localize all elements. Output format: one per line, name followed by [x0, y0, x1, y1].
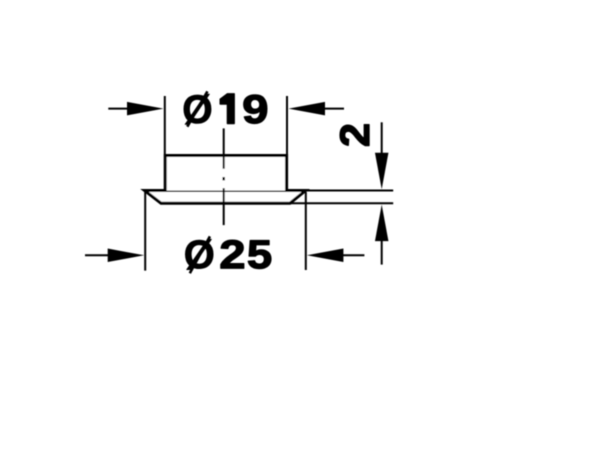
- arrow Ø25 left: [108, 249, 145, 262]
- label Ø25: digit 2: [221, 240, 244, 268]
- dimension line 2 lower: [381, 241, 383, 265]
- dimension line Ø19 right: [322, 108, 344, 110]
- arrow 2 lower (up): [375, 205, 389, 242]
- flange (cross-section of Ø25 trim ring): [145, 191, 306, 204]
- dimension line Ø25 left: [85, 254, 110, 256]
- label Ø25: Ø slash overlay: [190, 236, 210, 273]
- label 2 (rotated 90° CCW): [340, 125, 369, 146]
- arrow 2 upper (down): [375, 153, 389, 190]
- extension line Ø25 left: [144, 192, 146, 271]
- dimension line 2 upper: [381, 122, 383, 155]
- label Ø19: Ø slash overlay: [187, 91, 207, 126]
- label Ø25: Ø glyph: [185, 239, 213, 269]
- label Ø19: Ø glyph: [184, 94, 211, 124]
- dimension line Ø19 left: [108, 108, 130, 110]
- label Ø19: digit 1: [220, 94, 234, 124]
- cylinder body (Ø19 collar): [165, 156, 286, 191]
- arrow Ø19 right: [289, 102, 326, 116]
- dimension line Ø25 right: [341, 254, 364, 256]
- extension line Ø19 right: [286, 96, 288, 154]
- arrow Ø25 right: [307, 249, 344, 262]
- extension line Ø19 left: [164, 96, 166, 154]
- extension line thickness top right: [304, 190, 393, 192]
- label Ø19: digit 9: [244, 95, 267, 123]
- extension line Ø25 right: [305, 192, 307, 270]
- centerline (dash-dot): [223, 128, 225, 225]
- label Ø25: digit 5: [248, 241, 271, 269]
- arrow Ø19 left: [127, 102, 164, 116]
- extension line thickness bottom right: [291, 202, 393, 204]
